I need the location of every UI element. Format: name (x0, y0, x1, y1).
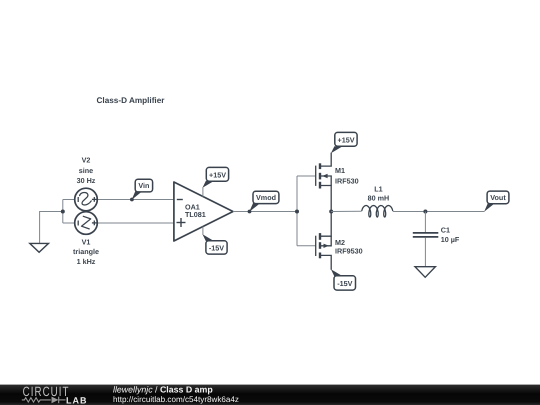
svg-text:M1: M1 (335, 166, 345, 175)
wire op-amp V+ pin (202, 187, 204, 197)
wire C1 top lead (424, 212, 426, 233)
power flag +15V M1 (331, 132, 357, 153)
svg-text:C1: C1 (441, 225, 450, 234)
ground GND2 (415, 267, 435, 278)
svg-text:CIRCUIT: CIRCUIT (23, 384, 70, 399)
footer bar (0, 385, 540, 405)
wire gate branch vertical (296, 176, 298, 246)
node dot gate branch (295, 210, 299, 214)
wire to ground left (40, 212, 63, 244)
svg-text:10 µF: 10 µF (441, 235, 460, 244)
svg-text:Class-D Amplifier: Class-D Amplifier (97, 96, 166, 105)
wire V2 right to op-amp inverting input (97, 199, 174, 201)
label OA1 TL081 (185, 202, 206, 219)
svg-text:TL081: TL081 (185, 210, 206, 219)
svg-text:LAB: LAB (66, 395, 88, 405)
wire M1 gate (297, 175, 316, 177)
logo diode triangle (52, 397, 59, 404)
node dot Vin (130, 198, 134, 202)
label M2 IRF9530 (335, 238, 363, 256)
svg-text:http://circuitlab.com/c54tyr8w: http://circuitlab.com/c54tyr8wk6a4z (113, 395, 239, 404)
label V2 sine 30 Hz (77, 155, 96, 185)
ground GND1 (30, 243, 49, 252)
power flag +15V op-amp (203, 167, 229, 187)
svg-text:+15V: +15V (338, 135, 355, 144)
op-amp OA1 (174, 182, 233, 241)
node dot source junction (61, 210, 65, 214)
wire MOSFET output to inductor (331, 210, 362, 212)
svg-text:Vout: Vout (490, 193, 506, 202)
svg-text:+15V: +15V (209, 170, 226, 179)
svg-text:V1: V1 (82, 237, 91, 246)
label V1 triangle 1 kHz (73, 237, 99, 265)
transistor M1 NMOS (316, 153, 332, 212)
wire M2 gate (297, 245, 316, 247)
power flag -15V M2 (331, 269, 356, 290)
svg-text:-15V: -15V (209, 244, 224, 253)
svg-text:IRF9530: IRF9530 (335, 247, 363, 256)
inductor L1 (362, 206, 393, 218)
logo resistor diode squiggle (22, 397, 66, 404)
node dot C1 branch (423, 210, 427, 214)
svg-text:sine: sine (79, 166, 93, 175)
node dot Vmod (248, 210, 252, 214)
wire inductor to Vout (393, 211, 485, 213)
svg-text:Vin: Vin (138, 181, 149, 190)
wire V1 right to op-amp non-inverting input (97, 222, 174, 224)
capacitor C1 (413, 233, 439, 237)
power flag -15V op-amp (203, 234, 228, 254)
label M1 IRF530 (335, 166, 359, 186)
svg-text:triangle: triangle (73, 247, 99, 256)
svg-text:IRF530: IRF530 (335, 176, 359, 185)
label L1 80 mH (368, 185, 390, 203)
label C1 10 uF (441, 225, 460, 244)
flag node Vmod (249, 191, 279, 212)
wire op-amp output to gate branch (233, 211, 297, 213)
flag node Vout (484, 191, 509, 212)
wire V1 left lead (63, 222, 75, 224)
svg-text:30 Hz: 30 Hz (77, 176, 96, 185)
wire C1 bottom lead (424, 238, 426, 267)
svg-text:-15V: -15V (337, 279, 352, 288)
voltage source V1 triangle (75, 212, 98, 235)
svg-text:V2: V2 (82, 155, 91, 164)
voltage source V2 sine (75, 188, 98, 211)
flag node Vin (132, 179, 153, 200)
svg-text:1 kHz: 1 kHz (77, 257, 96, 266)
transistor M2 PMOS (316, 212, 332, 270)
svg-text:llewellynjc / Class D amp: llewellynjc / Class D amp (113, 385, 213, 395)
wire V2 left lead (63, 199, 75, 201)
wire op-amp V- pin (202, 227, 204, 235)
node dot MOSFET output (329, 210, 333, 214)
svg-text:Vmod: Vmod (256, 193, 276, 202)
svg-text:80 mH: 80 mH (368, 194, 390, 203)
wire joining source left leads (62, 200, 64, 224)
svg-text:L1: L1 (374, 185, 382, 194)
